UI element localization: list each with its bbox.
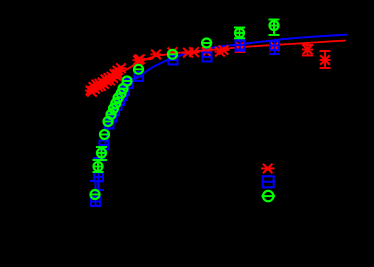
red data point 3 xyxy=(133,56,144,66)
legend blue sample xyxy=(262,176,276,187)
green data point 6 xyxy=(106,110,117,119)
red data point cluster 2 xyxy=(87,87,98,97)
red data point cluster 18 xyxy=(111,71,122,81)
red data point 12 xyxy=(218,45,229,55)
red data point cluster 5 xyxy=(91,80,102,90)
red data point cluster 4 xyxy=(90,84,101,94)
green data point 7 xyxy=(108,104,119,113)
blue data point 10 xyxy=(119,87,130,96)
legend red sample xyxy=(261,164,275,174)
blue data point 7 xyxy=(112,101,123,110)
red data point cluster 12 xyxy=(102,76,113,86)
blue data point 15 xyxy=(235,40,246,51)
green data point 10 xyxy=(116,89,127,98)
red data point cluster 17 xyxy=(109,69,120,79)
red data point cluster 3 xyxy=(88,82,99,92)
red data point cluster 14 xyxy=(105,76,116,86)
blue data point 16 xyxy=(269,41,280,54)
red data point 10 xyxy=(201,47,212,57)
red data point 8 xyxy=(183,48,194,58)
blue data point 2 xyxy=(93,158,104,190)
red data point 13 xyxy=(235,39,246,52)
red data point cluster 16 xyxy=(108,73,119,83)
red data point 6 xyxy=(151,50,162,60)
green data point 11 xyxy=(118,84,129,93)
green data point 4 xyxy=(99,130,110,139)
green data point 8 xyxy=(110,99,121,108)
red data point cluster 15 xyxy=(106,72,117,82)
red data point 15 xyxy=(320,51,331,68)
green data point 3 xyxy=(96,147,107,160)
red data point 5 xyxy=(140,58,151,60)
blue data point 11 xyxy=(123,79,134,88)
red data point 2 xyxy=(116,63,127,73)
blue data point 6 xyxy=(109,107,120,116)
blue fit curve xyxy=(104,35,349,162)
red data point cluster 1 xyxy=(85,86,96,96)
red data point cluster 13 xyxy=(103,73,114,83)
red data point 11 xyxy=(215,47,226,57)
red data point cluster 9 xyxy=(97,78,108,88)
green data point 16 xyxy=(234,28,245,39)
red data point cluster 11 xyxy=(100,75,111,85)
red data point 9 xyxy=(189,47,200,57)
green data point 5 xyxy=(103,117,114,126)
green data point 17 xyxy=(269,20,280,36)
blue data point 3 xyxy=(99,141,110,150)
red data point cluster 10 xyxy=(99,79,110,89)
blue data point 5 xyxy=(107,113,118,122)
red data point cluster 6 xyxy=(93,82,104,92)
red data point cluster 19 xyxy=(112,69,123,79)
red data point 1 xyxy=(112,66,123,76)
red data point extra (behind square) xyxy=(269,42,280,52)
red data point 14 xyxy=(302,45,313,56)
green data point 15 xyxy=(201,39,212,48)
blue data point 14 xyxy=(202,53,213,62)
green data point 13 xyxy=(133,65,144,74)
red data point 4 xyxy=(134,54,145,64)
green data point 1 xyxy=(90,190,101,199)
red data point 7 xyxy=(167,48,178,58)
blue data point 1 xyxy=(90,181,101,206)
blue data point 4 xyxy=(104,120,115,129)
green data point 12 xyxy=(122,77,133,86)
blue data point 13 xyxy=(168,56,179,65)
green data point 9 xyxy=(113,94,124,103)
blue data point 12 xyxy=(133,72,144,81)
blue data point 8 xyxy=(114,96,125,105)
green data point 14 xyxy=(167,50,178,59)
red data point cluster 8 xyxy=(96,81,107,91)
blue data point 9 xyxy=(117,91,128,100)
red fit curve xyxy=(91,41,346,91)
green data point 2 xyxy=(93,160,104,172)
legend green sample xyxy=(262,191,276,201)
red data point cluster 7 xyxy=(94,79,105,89)
